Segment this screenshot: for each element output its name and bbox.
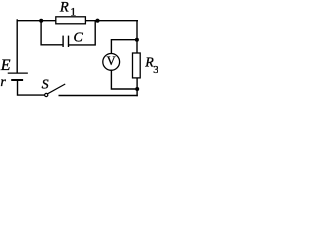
resistor R1 (56, 17, 86, 24)
wire: bottom-right riser (rail up to R3) (136, 78, 138, 96)
svg-text:R: R (59, 0, 69, 15)
capacitor C right plate (68, 36, 70, 46)
svg-text:S: S (42, 78, 49, 93)
junction: R3 top / voltmeter branch (135, 38, 139, 42)
battery E short plate (-) (12, 79, 22, 81)
junction: voltmeter return / R3 bottom lead (135, 87, 139, 91)
wire: left rail (top corner down to battery + plate) (16, 20, 18, 73)
wire: voltmeter bottom lead and return (111, 70, 136, 89)
battery E long plate (+) (8, 72, 27, 74)
wire: voltmeter branch top (corner to junction) (111, 40, 136, 54)
resistor R3 (133, 53, 141, 78)
svg-text:V: V (107, 54, 116, 68)
svg-text:1: 1 (70, 5, 76, 19)
switch S lever (48, 84, 65, 93)
wire: right rail upper (top-right corner down to R3) (136, 21, 138, 53)
wire: battery bottom lead down to bottom-left corner then to switch (18, 81, 45, 95)
svg-text:r: r (0, 75, 6, 90)
wire: top rail left (corner to R1) (17, 20, 56, 22)
svg-text:C: C (74, 31, 84, 46)
svg-text:3: 3 (153, 64, 158, 76)
svg-text:E: E (0, 57, 11, 74)
wire: top rail right (R1 to top-right corner) (85, 20, 137, 22)
wire: capacitor branch right return (69, 21, 95, 45)
voltmeter V body (103, 54, 120, 71)
wire: capacitor branch left drop (41, 21, 62, 45)
junction: top rail / capacitor right (95, 19, 99, 23)
capacitor C left plate (62, 36, 64, 46)
junction: top rail / capacitor left (39, 19, 43, 23)
switch S pivot circle (45, 93, 48, 96)
wire: bottom rail right of switch (59, 95, 137, 97)
